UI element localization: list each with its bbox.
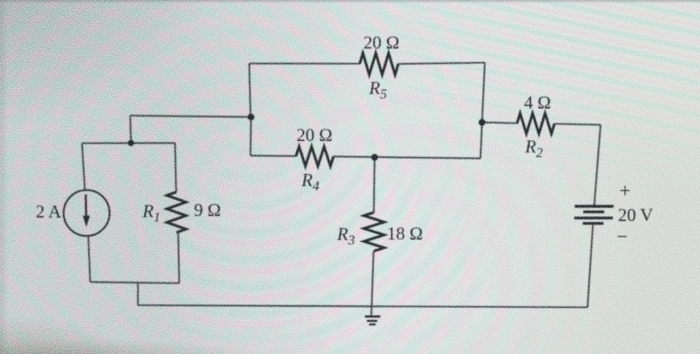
wire: middle horizontal right of R4: [334, 157, 481, 159]
wire: R2 left lead: [482, 121, 517, 124]
wire: upper-middle horizontal (node to node): [130, 116, 251, 117]
resistor R4 zigzag 20 ohm: [296, 147, 334, 167]
wire: top loop right vertical: [482, 63, 485, 123]
wire: current source upper lead: [82, 143, 85, 190]
resistor R1 zigzag 9 ohm: [167, 192, 186, 233]
ground symbol: [365, 315, 380, 317]
node A junction dot: [128, 140, 134, 146]
wire: bottom of source/R1 loop: [90, 282, 179, 283]
battery V1 20 V plates: [575, 205, 614, 208]
wire: current source top horizontal: [82, 142, 175, 144]
current source arrow: [85, 195, 88, 217]
wire: left loop vertical down to node A: [129, 116, 132, 143]
node B junction dot: [248, 114, 255, 121]
wire: middle horizontal left of R4: [251, 155, 297, 158]
resistor R2 zigzag 4 ohm: [517, 113, 555, 133]
current source I1 circle (2 A): [64, 190, 110, 236]
resistor R3 zigzag 18 ohm: [364, 212, 384, 251]
wire: battery - lead down to bottom rail: [588, 225, 593, 307]
wire: top horizontal right of R5: [398, 63, 485, 64]
wire: vertical up to node C: [481, 122, 483, 158]
wire: right vertical down to battery +: [594, 125, 600, 206]
node C junction dot: [479, 119, 486, 126]
wire: top horizontal left of R5: [249, 63, 360, 65]
wire: R2 right lead to corner: [555, 124, 601, 125]
wire: step from loop down to bottom rail: [137, 283, 139, 305]
node D junction dot: [371, 154, 378, 161]
wire: R3 lower lead through rail to ground: [371, 251, 373, 316]
wire: R1 upper lead: [175, 143, 176, 192]
wire: R3 upper lead from node D: [373, 157, 376, 212]
wire: middle vertical from node B down: [250, 117, 253, 156]
wire: top loop left vertical: [249, 64, 250, 118]
wire: current source lower lead: [88, 236, 90, 282]
resistor R5 zigzag 20 ohm: [360, 53, 399, 75]
wire: R1 lower lead: [178, 233, 179, 284]
wire: bottom rail: [138, 305, 588, 307]
